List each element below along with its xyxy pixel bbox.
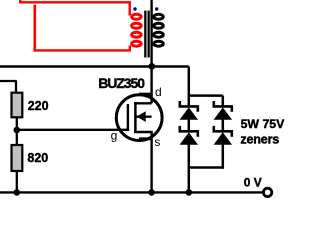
- zener D1 anode triangle: [180, 107, 198, 119]
- MOSFET Q1 channel bar: [134, 102, 137, 133]
- MOSFET Q1 top shoulder to drain wire: [139, 93, 152, 96]
- wire gate: [17, 129, 129, 131]
- svg-text:0 V: 0 V: [244, 175, 262, 189]
- MOSFET Q1 source lead: [134, 131, 151, 133]
- wire red primary drop to winding top: [128, 2, 130, 15]
- wire secondary top / drain vertical: [150, 0, 152, 103]
- wire right branch drop: [222, 96, 225, 106]
- transformer T1 polarity dot secondary: [155, 7, 158, 10]
- wire red primary stub to top edge: [19, 0, 21, 4]
- wire stub down to R1: [15, 81, 17, 92]
- transformer T1 secondary winding (4 black turns): [154, 14, 164, 46]
- zener D3 cathode bar: [214, 101, 232, 112]
- zener D4 anode triangle: [214, 132, 232, 144]
- wire rail to zener bank (left branch top): [188, 67, 191, 107]
- svg-text:820: 820: [27, 151, 48, 165]
- svg-text:g: g: [111, 128, 118, 142]
- svg-text:d: d: [155, 85, 162, 99]
- wire source vertical to rail: [150, 131, 152, 192]
- wire D1-D2: [188, 119, 191, 130]
- zener D2 cathode bar: [180, 126, 198, 137]
- wire zener bottom connector: [188, 166, 224, 169]
- transformer T1 core (two bars): [144, 11, 146, 58]
- transformer T1 polarity dot primary: [133, 7, 136, 10]
- wire R2 bottom to 0V rail: [16, 171, 18, 192]
- node gate junction: [13, 127, 20, 134]
- MOSFET Q1 bottom shoulder to source wire: [139, 137, 152, 140]
- wire top rail: [0, 65, 189, 68]
- wire gate-supply stub from left edge: [0, 80, 17, 82]
- MOSFET Q1 body diode line: [136, 116, 152, 118]
- wire red primary top horizontal: [19, 1, 131, 3]
- svg-text:zeners: zeners: [240, 132, 279, 146]
- wire red primary left vertical: [33, 5, 36, 52]
- terminal 0V output: [263, 188, 271, 196]
- wire right branch bottom: [222, 144, 225, 168]
- wire left branch bottom: [188, 144, 191, 192]
- resistor R1 220: [12, 93, 23, 118]
- zener D4 cathode bar: [214, 126, 232, 137]
- wire red primary rise from winding bottom: [129, 46, 131, 51]
- MOSFET Q1 body circle: [116, 95, 162, 141]
- wire D3-D4: [222, 119, 225, 130]
- MOSFET Q1 gate bar: [127, 104, 129, 131]
- wire zener top connector: [188, 94, 223, 97]
- wire red primary bottom horizontal: [34, 49, 132, 51]
- node source/rail junction: [148, 189, 155, 196]
- node junction drain/secondary: [148, 63, 155, 70]
- zener D1 cathode bar: [180, 101, 198, 112]
- transformer T1 primary winding (4 red turns): [132, 14, 142, 46]
- MOSFET Q1 drain lead: [134, 102, 151, 104]
- svg-text:BUZ350: BUZ350: [98, 75, 145, 91]
- wire R1 bottom to gate node: [16, 117, 18, 144]
- node R2/rail junction: [13, 189, 20, 196]
- zener D3 anode triangle: [214, 107, 232, 119]
- svg-text:5W 75V: 5W 75V: [241, 117, 286, 131]
- svg-text:s: s: [154, 135, 160, 149]
- zener D2 anode triangle: [180, 132, 198, 144]
- node zener/rail junction: [186, 189, 193, 196]
- wire bottom 0V rail: [0, 191, 262, 193]
- MOSFET Q1 body arrow (points to channel): [137, 111, 146, 122]
- resistor R2 820: [12, 145, 23, 171]
- svg-text:220: 220: [28, 99, 49, 113]
